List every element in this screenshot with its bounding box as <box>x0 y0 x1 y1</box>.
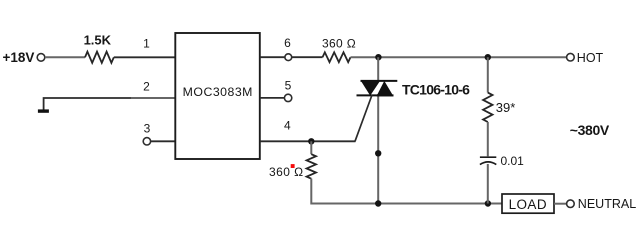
wire LOAD to NEUTRAL <box>554 203 567 205</box>
resistor 39* <box>483 93 515 122</box>
node NEUTRAL <box>567 197 637 211</box>
junction triac anode / hot line <box>375 54 381 60</box>
svg-text:4: 4 <box>284 119 291 133</box>
resistor 360 ohm gate <box>269 154 316 179</box>
svg-text:1.5K: 1.5K <box>84 32 112 47</box>
wire triac lower (anode2) <box>377 94 379 204</box>
IC U1 MOC3083M <box>175 33 259 159</box>
resistor 360 ohm top <box>322 36 356 62</box>
red dot marker <box>291 164 295 168</box>
junction 39 ohm branch / hot line <box>485 54 491 60</box>
pin 5 terminal <box>284 94 291 101</box>
node +18V <box>3 50 45 65</box>
junction cap branch / bottom rail <box>485 200 491 206</box>
svg-text:TC106-10-6: TC106-10-6 <box>402 82 470 98</box>
wire pin 3 terminal to IC <box>151 140 175 142</box>
wire IC pin 2 to ground <box>44 98 132 110</box>
svg-text:0.01: 0.01 <box>501 154 525 168</box>
ground <box>38 109 49 112</box>
wire +18V terminal to R 1.5K <box>45 56 85 58</box>
svg-text:+18V: +18V <box>3 50 35 65</box>
wire gate resistor to bottom rail <box>311 179 502 204</box>
junction pin4 / gate resistor <box>308 138 314 144</box>
wire junction down to gate resistor <box>310 141 312 154</box>
svg-text:39*: 39* <box>496 100 516 115</box>
resistor 1.5K <box>84 32 114 63</box>
capacitor 0.01 <box>480 154 524 168</box>
svg-text:6: 6 <box>284 36 291 50</box>
wire IC pin 4 to gate <box>260 140 356 142</box>
pin 6 terminal <box>285 54 292 61</box>
svg-text:HOT: HOT <box>577 51 604 65</box>
wire triac upper (anode) <box>377 57 379 82</box>
triac TC106-10-6 <box>357 80 471 97</box>
wire R 360 to HOT <box>351 56 567 58</box>
wire resistor 39 to capacitor <box>487 122 489 156</box>
wire IC pin 5 to terminal <box>260 97 285 99</box>
wire 39 ohm branch upper <box>487 57 489 92</box>
pin 3 terminal <box>143 138 150 145</box>
svg-text:LOAD: LOAD <box>509 197 547 212</box>
svg-text:5: 5 <box>285 78 292 92</box>
svg-text:360 Ω: 360 Ω <box>322 36 356 50</box>
wire IC pin 6 to terminal <box>260 56 285 58</box>
svg-text:3: 3 <box>144 122 151 136</box>
wire gate diagonal <box>355 95 372 141</box>
junction dot on triac line <box>375 150 381 156</box>
load box LOAD <box>502 194 554 213</box>
junction triac line / bottom rail <box>375 200 381 206</box>
svg-text:~380V: ~380V <box>570 122 610 138</box>
svg-text:2: 2 <box>143 80 150 94</box>
svg-text:1: 1 <box>143 37 150 51</box>
svg-text:360 Ω: 360 Ω <box>269 165 304 179</box>
svg-text:MOC3083M: MOC3083M <box>183 85 253 99</box>
svg-text:NEUTRAL: NEUTRAL <box>578 197 636 211</box>
wire pin 6 terminal to R 360 <box>292 56 323 58</box>
node HOT <box>567 51 604 65</box>
wire R 1.5K to IC pin 1 <box>114 56 175 58</box>
wire capacitor to bottom rail <box>487 164 489 204</box>
